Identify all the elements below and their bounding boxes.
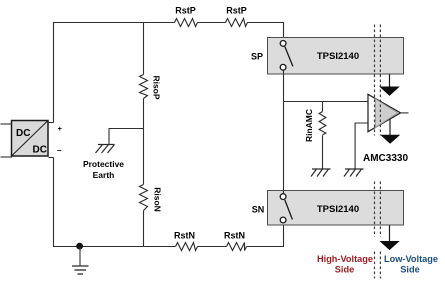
resistor RstP (left) — [175, 19, 198, 27]
wire: sense node to amplifier positive input — [284, 101, 369, 103]
wire: amplifier to bottom arrow — [389, 120, 391, 136]
svg-text:RstN: RstN — [174, 231, 195, 241]
protective earth ground symbol — [96, 145, 115, 154]
switch U1 TPSI2140 (SP) body — [268, 38, 404, 75]
wire: DC/DC minus terminal — [49, 157, 54, 159]
switch U2 TPSI2140 (SN) body — [268, 191, 404, 226]
DC/DC converter — [12, 121, 49, 157]
switch SP lever — [285, 47, 293, 67]
svg-text:Protective: Protective — [83, 159, 124, 169]
svg-text:AMC3330: AMC3330 — [363, 153, 408, 164]
svg-text:Side: Side — [335, 265, 354, 275]
junction HV ground node — [76, 243, 83, 250]
svg-text:DC: DC — [33, 145, 47, 156]
wire: branch to protective earth — [109, 129, 144, 145]
svg-text:SN: SN — [252, 205, 265, 215]
svg-text:SP: SP — [251, 52, 263, 62]
switch SP contacts — [280, 41, 286, 47]
isolation barrier dashed lines (label row) — [375, 252, 381, 279]
svg-text:Low-Voltage: Low-Voltage — [384, 254, 438, 264]
wire: amplifier output — [401, 112, 409, 114]
svg-text:–: – — [57, 146, 62, 155]
svg-text:RstP: RstP — [226, 6, 247, 16]
svg-text:Side: Side — [400, 265, 419, 275]
switch SN lever — [285, 200, 293, 220]
ground at RinAMC — [311, 169, 331, 177]
wire: SP bottom contact to SN top contact — [283, 71, 285, 195]
svg-text:Earth: Earth — [93, 170, 115, 180]
resistor RisoP — [140, 75, 148, 99]
resistor RstP (right) — [226, 19, 248, 27]
wire: amplifier negative input to ground — [355, 123, 368, 169]
isolation barrier dashed lines (upper) — [375, 25, 381, 136]
wire: top bus from left corner to SP switch — [54, 23, 175, 123]
svg-text:TPSI2140: TPSI2140 — [317, 51, 359, 62]
resistor RinAMC — [322, 102, 324, 112]
svg-text:High-Voltage: High-Voltage — [317, 254, 373, 264]
wire: stub to HV ground — [79, 247, 81, 266]
svg-text:+: + — [58, 126, 62, 133]
wire: SP block to low-voltage supply arrow — [389, 75, 391, 88]
svg-text:RstN: RstN — [224, 231, 245, 241]
wire: RisoP/RisoN divider column — [143, 23, 145, 75]
svg-text:TPSI2140: TPSI2140 — [317, 204, 359, 215]
wire: bottom bus from DC/DC minus to SN switch — [54, 158, 176, 247]
arrow below SN switch — [380, 241, 400, 250]
wire: DC/DC input stubs — [1, 123, 13, 125]
wire: DC/DC plus terminal — [49, 122, 54, 124]
isolation barrier dashed lines (lower) — [375, 182, 381, 238]
svg-text:RisoN: RisoN — [153, 187, 163, 212]
ground at amplifier negative input — [344, 169, 364, 177]
resistor RisoN — [140, 185, 148, 211]
svg-text:RisoP: RisoP — [152, 75, 162, 99]
svg-text:RstP: RstP — [175, 6, 196, 16]
ground (high-voltage reference) — [72, 266, 89, 274]
resistor RstN (right) — [227, 243, 247, 251]
resistor RstN (left) — [176, 243, 198, 251]
op-amp U3 AMC3330 — [368, 94, 401, 131]
wire: SN block to bottom arrow — [389, 226, 391, 242]
arrow below amplifier — [380, 135, 400, 144]
arrow into amplifier (top) — [379, 87, 400, 96]
switch SN contacts — [280, 194, 286, 200]
svg-text:RinAMC: RinAMC — [304, 109, 314, 142]
svg-text:DC: DC — [16, 128, 30, 139]
